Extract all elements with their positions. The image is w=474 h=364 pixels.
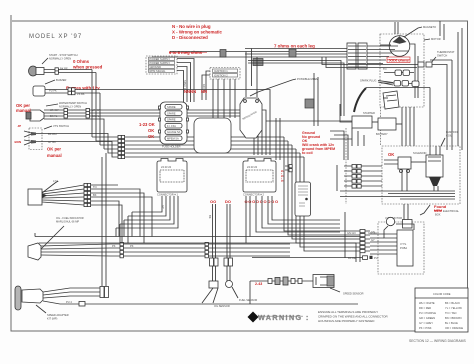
speed sensor [250,275,364,296]
bottom bus wires [35,153,362,286]
svg-text:JP: JP [18,124,22,128]
svg-text:2-43: 2-43 [255,282,262,286]
svg-text:WH = WHITE: WH = WHITE [419,301,435,305]
stop switch [29,53,78,76]
svg-text:GAUGE 5A: GAUGE 5A [167,130,181,134]
svg-text:ELECTRICAL: ELECTRICAL [443,209,460,213]
power supply exit wires [177,59,194,103]
svg-text:GY: GY [371,238,375,242]
svg-text:BK: BK [93,193,97,197]
svg-text:MPEM 5A: MPEM 5A [167,137,179,141]
svg-text:POWER SUPPLY: POWER SUPPLY [150,57,171,61]
MPEM box [194,118,231,153]
fuse holder [159,102,189,149]
svg-text:BK RE: BK RE [60,67,68,71]
svg-text:POSSIBLE MPEM: POSSIBLE MPEM [297,77,318,81]
svg-text:PU: PU [374,256,378,260]
svg-text:PK: PK [130,244,134,248]
red note 6 to 8 meg ohms [169,50,207,55]
svg-text:7 ohms on each leg: 7 ohms on each leg [274,44,315,49]
svg-text:WH GY: WH GY [50,108,59,112]
connector 1 [157,159,187,197]
stop switch wires [44,67,96,142]
svg-text:IGNITION 2: IGNITION 2 [214,74,228,78]
svg-text:F.I. 15A: F.I. 15A [167,124,176,128]
svg-text:PCBA: PCBA [400,246,407,250]
svg-text:WARNING :: WARNING : [258,313,310,322]
svg-text:KIT (MP): KIT (MP) [47,317,57,321]
spark plug connector columns [347,22,398,69]
svg-text:GROUND: GROUND [150,65,162,69]
svg-text:MAGNETO: MAGNETO [423,25,436,29]
svg-text:SPEED SENSOR: SPEED SENSOR [343,292,364,296]
warning text block [318,310,388,323]
svg-text:WATER/TEMP SWITCH: WATER/TEMP SWITCH [59,101,87,105]
svg-text:4 T-L: 4 T-L [53,179,59,183]
svg-text:D - Disconnected: D - Disconnected [172,35,208,40]
svg-text:FUEL SENSOR: FUEL SENSOR [239,298,257,302]
svg-text:YL = YELLOW: YL = YELLOW [445,306,462,310]
svg-text:to coil: to coil [302,151,313,155]
svg-text:GN GN: GN GN [368,231,377,235]
svg-text:OK per: OK per [47,147,61,152]
svg-text:NORMALLY OPEN: NORMALLY OPEN [49,57,71,61]
svg-text:OO: OO [210,199,216,204]
svg-text:MOTOR: MOTOR [431,37,441,41]
svg-text:THERMOSTAT: THERMOSTAT [437,50,455,54]
svg-text:NN: NN [201,89,207,94]
svg-text:PU = PURPLE: PU = PURPLE [419,311,436,315]
thermostat switch [322,50,455,150]
svg-text:V.T.S.: V.T.S. [400,242,407,246]
svg-text:MARL/GAUL 66 MP: MARL/GAUL 66 MP [56,220,79,224]
svg-text:24 23 22: 24 23 22 [161,165,172,169]
svg-text:0 Ohms: 0 Ohms [73,59,90,64]
buzzer wires [45,88,270,145]
svg-text:SWITCH: SWITCH [437,54,447,58]
svg-text:RD = RED: RD = RED [419,306,431,310]
red XXX ohms crossed [387,57,410,63]
svg-text:NORMALLY OPEN: NORMALLY OPEN [59,105,81,109]
svg-text:NNNN: NNNN [184,89,196,94]
svg-text:HOUSINGS ARE PROPERLY FASTENED: HOUSINGS ARE PROPERLY FASTENED [318,319,375,323]
svg-text:CRIMPED ON THE WIRES AND ALL C: CRIMPED ON THE WIRES AND ALL CONNECTOR [318,315,388,319]
svg-text:OIL - FUEL INDICATOR: OIL - FUEL INDICATOR [56,216,84,220]
wires below connector 1 staircase [116,196,178,228]
svg-text:STARTER: STARTER [363,111,375,115]
svg-text:SECTION 12 — WIRING DIAGRAMS: SECTION 12 — WIRING DIAGRAMS [409,339,466,343]
svg-text:SPARE: SPARE [167,118,176,122]
magneto dashed box [380,25,441,107]
svg-text:CONNECTOR # 1: CONNECTOR # 1 [157,193,179,197]
svg-text:START - STOP SWITCH: START - STOP SWITCH [49,53,78,57]
svg-text:BATTERY: BATTERY [376,132,388,136]
svg-text:BOX: BOX [435,213,441,217]
svg-text:GR = GREEN: GR = GREEN [419,316,435,320]
right row labels column [340,212,378,260]
svg-text:GY: GY [161,205,165,209]
starter [266,104,378,128]
svg-text:PU 4: PU 4 [66,300,72,304]
svg-text:PK BK: PK BK [77,92,85,96]
svg-text:PK: PK [112,244,116,248]
water temp switch [26,101,87,121]
possible mpem label [250,77,318,96]
oil fuel indicator [28,216,290,260]
middle band wires [42,134,304,159]
red notes fuse OK [139,122,155,139]
svg-text:DO: DO [225,199,231,204]
svg-text:SPARK PLUG: SPARK PLUG [360,79,376,83]
svg-text:BON: BON [15,140,22,144]
svg-text:GY = GREY: GY = GREY [419,321,433,325]
wires from left components descending [254,118,270,155]
svg-text:MEM: MEM [434,209,442,213]
right side long verticals [402,21,462,150]
VTS wire rows [370,230,397,254]
svg-text:VTS SWITCH: VTS SWITCH [53,124,69,128]
VTS assembly [378,216,424,274]
svg-text:IGNITION: IGNITION [446,130,458,134]
svg-text:ENSURE ALL TERMINALS ARE PROPE: ENSURE ALL TERMINALS ARE PROPERLY [318,310,378,314]
power supply dashed box [146,56,177,74]
svg-text:COLOR CODE: COLOR CODE [433,292,451,296]
battery [376,118,402,136]
svg-text:OK: OK [148,134,154,139]
svg-text:1-23 OK: 1-23 OK [139,122,155,127]
svg-text:PK = PINK: PK = PINK [419,326,432,330]
svg-text:SPARE: SPARE [167,111,176,115]
svg-text:GY BK: GY BK [48,140,56,144]
svg-text:BUZZER: BUZZER [56,78,67,82]
svg-text:OR = ORANGE: OR = ORANGE [445,326,463,330]
svg-text:OK: OK [148,128,154,133]
svg-text:manual: manual [16,108,31,113]
center right wires [246,49,364,205]
warning diamond [248,312,310,323]
water temp wires [44,108,266,149]
red ground notes [302,131,335,155]
wires below ignition box [202,71,235,118]
svg-text:TN = TAN: TN = TAN [445,311,456,315]
fuel sensor wires [224,204,257,302]
svg-text:COIL: COIL [446,134,453,138]
oil sensor wires [202,204,230,308]
speed adapter [15,281,358,321]
svg-text:BN = BROWN: BN = BROWN [445,316,462,320]
svg-text:OK: OK [388,152,394,157]
svg-text:BK WH: BK WH [48,132,57,136]
color code table [415,288,468,332]
svg-text:MODEL XP '97: MODEL XP '97 [29,34,82,40]
svg-text:IGNITION 1: IGNITION 1 [214,69,228,73]
red circles under connector 2 [245,170,285,204]
ignition dashed box [210,68,240,80]
svg-text:WH GY: WH GY [92,108,101,112]
fuel gauge module [285,165,311,216]
hatched connector on bus [220,49,314,108]
electric box dashed [337,130,460,222]
svg-text:CONNECTOR # 2: CONNECTOR # 2 [243,193,265,197]
svg-text:4 - 4 - 4: 4 - 4 - 4 [280,170,284,182]
top bus wires 7 ohms [152,49,347,58]
svg-text:BK = BLACK: BK = BLACK [445,301,460,305]
red circles oil/fuel [210,199,231,204]
svg-text:BK YL: BK YL [50,114,58,118]
connector 2 [243,159,276,197]
svg-text:BL = BLUE: BL = BLUE [445,321,458,325]
svg-text:SOLENOID: SOLENOID [413,151,427,155]
svg-text:TN: TN [93,185,97,189]
VTS switch [15,124,70,150]
svg-text:when pressed: when pressed [72,65,103,70]
svg-text:SPARE: SPARE [167,105,176,109]
regulator [240,98,262,138]
svg-text:BK YL: BK YL [92,114,100,118]
red Found electrical box [420,204,460,217]
svg-text:GN GN: GN GN [347,231,356,235]
svg-text:BK RE: BK RE [348,256,356,260]
svg-text:manual: manual [47,153,62,158]
svg-text:FUSE HOLDER: FUSE HOLDER [162,145,181,149]
svg-text:PU PK: PU PK [49,89,57,93]
svg-text:SPEED ADAPTER: SPEED ADAPTER [47,313,69,317]
svg-text:POWER SUPPLY: POWER SUPPLY [150,61,171,65]
magneto internals [354,67,430,146]
left info gauge [28,179,152,243]
staircase from buses to VTS rows [246,137,340,251]
svg-text:X - Wrong on schematic: X - Wrong on schematic [172,30,222,35]
svg-text:BK: BK [208,215,212,219]
svg-text:RPM SIGNAL: RPM SIGNAL [150,69,167,73]
legend red notes [172,24,222,40]
svg-text:OIL SENSOR: OIL SENSOR [214,304,230,308]
buzzer [33,78,67,96]
svg-text:N - No wire in plug: N - No wire in plug [172,24,211,29]
svg-text:24 23 22: 24 23 22 [247,165,258,169]
